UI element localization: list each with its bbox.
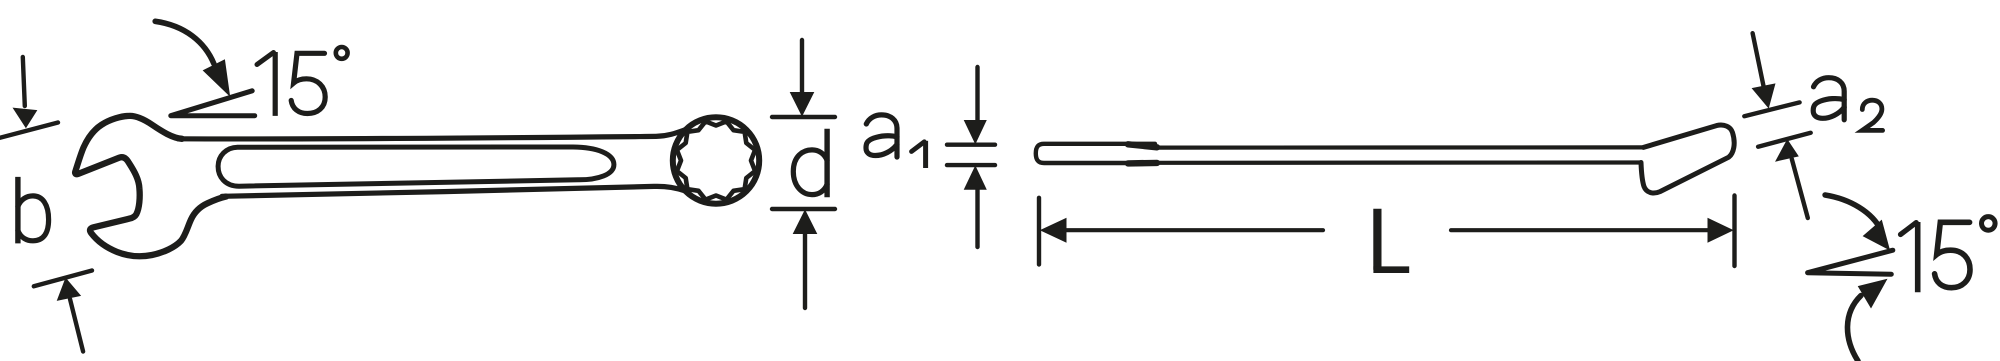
wrench side-view: handle top line — [1157, 145, 1644, 149]
dimension L: right tick — [1732, 196, 1736, 267]
angle 15 deg bottom-right: wedge — [1808, 250, 1893, 274]
label 15 deg bottom-right: digit 1 — [1915, 222, 1921, 292]
wrench top-view: handle top edge — [178, 130, 685, 139]
dimension d: lower arrow — [803, 233, 807, 308]
dimension a2: upper tick — [1744, 102, 1799, 116]
label 15 deg top-left: digit 5 — [291, 53, 325, 113]
dimension b: lower arrow — [70, 299, 83, 352]
angle 15 deg top-left: curved arrow — [155, 21, 214, 64]
dimension a1: label a — [866, 115, 897, 157]
dimension a1: upper arrow — [975, 67, 979, 122]
label 15 deg top-left: degree sign — [336, 47, 348, 59]
dimension a1: upper tick — [947, 142, 995, 146]
dimension b: upper tick — [0, 123, 58, 139]
dimension a2: lower tick — [1758, 133, 1811, 147]
wrench side-view: transition wedge top — [1128, 144, 1157, 147]
label b — [15, 177, 20, 244]
dimension a1: lower tick — [947, 163, 995, 167]
angle 15 deg top-left: wedge — [171, 91, 255, 116]
wrench top-view: ring end 12-point profile — [677, 121, 755, 199]
label a2: subscript 2 — [1862, 100, 1882, 130]
dimension a2: lower arrow — [1776, 140, 1798, 161]
wrench top-view: ring end outer circle — [673, 117, 759, 203]
dimension b: lower tick — [34, 271, 92, 287]
wrench side-view: handle bottom line — [1157, 160, 1641, 165]
wrench side-view: head (left) — [1036, 144, 1155, 163]
dimension a2: upper arrow — [1753, 33, 1764, 86]
label 15 deg top-left: digit 1 — [273, 52, 278, 116]
label d — [824, 129, 829, 198]
wrench side-view: angled open-end head — [1641, 125, 1734, 193]
dimension L: right segment — [1451, 228, 1710, 232]
label L — [1373, 209, 1381, 270]
wrench top-view: handle slot — [218, 147, 614, 186]
wrench top-view: open-end head outline — [75, 116, 226, 256]
dimension L: right arrow — [1708, 219, 1733, 243]
label 15 deg bottom-right: degree sign — [1982, 217, 1996, 231]
wrench top-view: handle bottom edge — [222, 186, 684, 196]
dimension a1: subscript 1 — [923, 141, 928, 168]
label 15 deg bottom-right: digit 5 — [1935, 222, 1970, 287]
angle 15 deg bottom-right: upper curved arrow — [1825, 195, 1881, 230]
label a2: letter a — [1814, 78, 1845, 120]
dimension d: upper arrow — [800, 40, 804, 94]
angle 15 deg bottom-right: lower curved arrow — [1847, 296, 1861, 361]
dimension L: left tick — [1037, 198, 1041, 265]
dimension a1: lower arrow — [975, 189, 979, 247]
dimension b: upper arrow — [23, 57, 25, 106]
wrench side-view: transition wedge bottom — [1128, 160, 1157, 167]
dimension L: left arrow — [1041, 219, 1066, 243]
dimension d: lower tick — [772, 207, 835, 211]
dimension d: upper tick — [772, 115, 835, 119]
